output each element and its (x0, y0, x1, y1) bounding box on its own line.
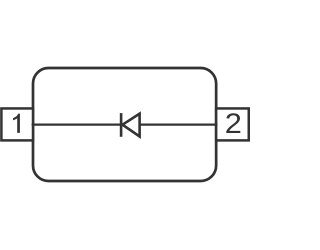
wire from diode anode to pin 2 (140, 123, 218, 125)
wire from pin 1 to diode cathode (32, 123, 122, 125)
pin 2 box (216, 108, 249, 140)
component body outline (33, 68, 216, 181)
diode D1 anode triangle (123, 114, 140, 137)
pin 1 box (1, 108, 33, 140)
diode D1 cathode bar (120, 113, 123, 137)
pin 1 label (13, 114, 20, 133)
pin 2 label (226, 113, 240, 133)
